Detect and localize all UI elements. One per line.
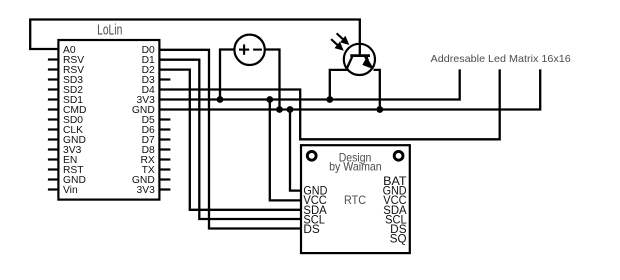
svg-text:3V3: 3V3: [136, 185, 155, 196]
svg-text:DS: DS: [303, 224, 320, 236]
svg-text:RTC: RTC: [344, 194, 366, 207]
svg-text:SQ: SQ: [390, 234, 407, 246]
svg-text:by Waiman: by Waiman: [329, 161, 382, 174]
svg-text:LoLin: LoLin: [97, 23, 122, 39]
svg-text:Addresable Led Matrix 16x16: Addresable Led Matrix 16x16: [431, 53, 571, 65]
svg-text:Vin: Vin: [63, 185, 78, 196]
